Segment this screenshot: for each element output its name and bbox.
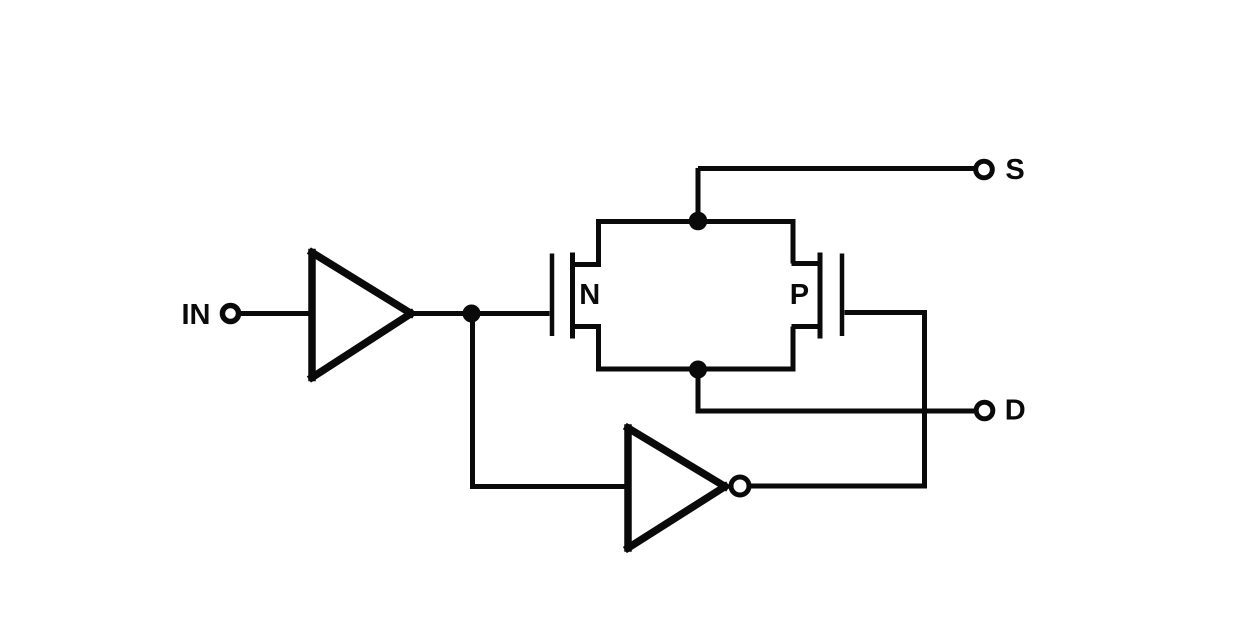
terminal S (open circle) xyxy=(976,161,993,178)
wire IN to buffer input xyxy=(239,311,310,316)
svg-text:IN: IN xyxy=(182,299,211,331)
node top junction xyxy=(689,212,708,231)
node A (junction dot) xyxy=(463,305,481,323)
wire S lead xyxy=(698,166,974,171)
wire P gate lead xyxy=(845,310,928,315)
N gate bar xyxy=(550,254,555,337)
terminal D (open circle) xyxy=(976,402,993,419)
N drain riser xyxy=(596,222,601,265)
svg-text:S: S xyxy=(1005,154,1024,186)
wire bottom rail xyxy=(596,367,796,372)
N drain stub xyxy=(573,262,602,267)
svg-text:N: N xyxy=(579,279,600,311)
P drain riser xyxy=(791,222,796,264)
svg-text:P: P xyxy=(790,279,809,311)
N channel bar xyxy=(570,253,575,339)
wire node A down to inverter input xyxy=(473,314,629,487)
transistor N (NMOS pass device) xyxy=(552,222,601,370)
svg-text:D: D xyxy=(1005,395,1026,427)
wire bottom junction down to D lead xyxy=(696,369,701,411)
N source dropper xyxy=(596,327,601,370)
buffer U1 (non-inverting driver) xyxy=(312,253,411,378)
P drain stub xyxy=(792,261,821,266)
node bottom junction xyxy=(689,361,707,379)
terminal IN (open circle) xyxy=(222,305,238,321)
wire buffer output to node A xyxy=(412,311,472,316)
wire top rail xyxy=(596,219,796,224)
inverter U2 output bubble xyxy=(731,477,749,495)
P source stub xyxy=(792,324,821,329)
wire D lead xyxy=(696,409,976,414)
inverter U2 xyxy=(628,428,725,548)
wire node A to N gate xyxy=(472,311,550,316)
P channel bar xyxy=(818,253,823,339)
wire inverter output to P gate riser xyxy=(749,484,927,489)
P source dropper xyxy=(791,327,796,370)
N source stub xyxy=(573,324,602,329)
P gate bar xyxy=(840,254,845,337)
wire P gate riser xyxy=(922,313,927,487)
transistor P (PMOS pass device) xyxy=(790,222,842,370)
wire top junction up to S lead xyxy=(696,168,701,222)
